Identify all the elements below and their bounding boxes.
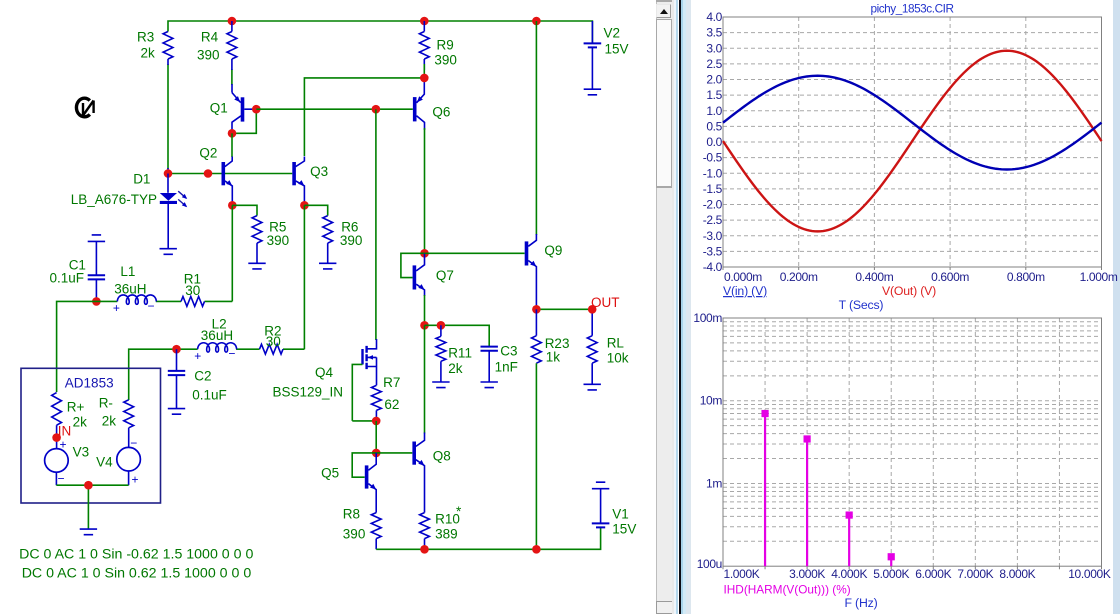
svg-text:2.5: 2.5 [706,57,722,71]
svg-text:R7: R7 [383,375,400,390]
battery V1 15V [592,482,609,489]
junction C1 [92,297,101,306]
resistor R7 62 [372,385,382,410]
wire -15V rail (bottom) [376,528,600,550]
junction D1 node [164,169,173,178]
transistor Q7 [413,265,417,289]
resistor R10 389 [420,513,430,539]
wire rail to Q9 collector [535,21,537,235]
source V3 [45,449,69,473]
svg-text:V4: V4 [96,455,113,470]
wire Q5 base loop [352,453,376,477]
svg-text:R11: R11 [448,346,472,361]
svg-text:R4: R4 [201,30,219,45]
svg-text:10.000K: 10.000K [1068,567,1111,581]
svg-text:8.000K: 8.000K [999,567,1035,581]
svg-text:30: 30 [266,334,281,349]
svg-text:V(in) (V): V(in) (V) [723,284,767,298]
svg-text:V2: V2 [604,26,621,41]
junction ground node [84,481,93,490]
svg-text:Q8: Q8 [433,449,451,464]
svg-text:4.0: 4.0 [706,10,722,24]
svg-text:1.0: 1.0 [706,104,722,118]
svg-text:L1: L1 [120,264,135,279]
capacitor C2 0.1uF [176,349,178,371]
svg-text:2k: 2k [141,46,156,61]
svg-text:T (Secs): T (Secs) [839,298,884,312]
svg-text:-0.5: -0.5 [703,151,723,165]
resistor R6 390 [323,216,333,244]
svg-text:3.000K: 3.000K [789,567,825,581]
source V4 [117,447,141,471]
junction Q3 emitter [300,201,309,210]
svg-text:0.1uF: 0.1uF [50,271,85,286]
wire base node to Q8 [376,452,412,454]
transistor Q2 [222,162,226,185]
junction rail-R9 [420,17,429,26]
svg-text:2.0: 2.0 [706,73,722,87]
svg-text:V(Out) (V): V(Out) (V) [882,284,936,298]
transistor Q6 [413,97,417,121]
ground below R5 [248,263,265,269]
resistor R8 390 [371,513,381,539]
svg-text:-3.5: -3.5 [703,244,723,258]
svg-text:0.000m: 0.000m [724,270,762,284]
svg-text:0.0: 0.0 [706,135,722,149]
svg-text:−: − [58,472,65,486]
junction VAS node [372,105,381,114]
wire R9 to Q6 [423,64,425,78]
svg-text:R3: R3 [137,30,154,45]
wire R+ to V3 [56,425,58,449]
svg-text:IHD(HARM(V(Out))) (%): IHD(HARM(V(Out))) (%) [724,583,851,597]
junction base wire [204,169,213,178]
svg-text:389: 389 [435,527,458,542]
wire R4 to Q1 [231,69,233,85]
svg-text:V3: V3 [73,445,90,460]
grid bottom plot [723,318,1102,566]
svg-text:C3: C3 [500,344,517,359]
ground below C2 [168,409,185,415]
svg-text:R-: R- [99,396,113,411]
resistor RL 10k [587,336,597,364]
svg-text:100m: 100m [693,311,722,325]
svg-text:62: 62 [384,397,399,412]
ticks top plot [723,267,1102,270]
inductor L2 36uH [198,343,237,352]
ground below V2 [584,89,601,95]
svg-text:36uH: 36uH [114,282,146,297]
svg-text:-1.0: -1.0 [703,166,723,180]
resistor R9 390 [423,21,425,32]
resistor R1 30 [181,297,205,307]
resistor R+ 2k [52,393,62,426]
wire R11 row [425,325,490,346]
svg-text:2k: 2k [448,361,463,376]
capacitor C1 0.1uF [95,241,97,275]
svg-text:Q2: Q2 [199,146,217,161]
diode D1 LED [167,174,169,193]
wire R7 to base node [375,421,377,453]
svg-text:D1: D1 [133,172,150,187]
resistor R23 1k [532,336,542,364]
wire VAS node down to Q4 drain [375,109,377,340]
transistor Q8 [412,442,416,465]
plot pane right edge strip [1113,0,1120,614]
wire L2 row [129,349,305,400]
scrollbar up arrow [660,9,668,14]
svg-text:6.000K: 6.000K [915,567,951,581]
junction R11 top [437,321,446,330]
svg-text:30: 30 [185,283,200,298]
transistor Q1 [241,97,245,121]
resistor R3 2k [163,32,173,60]
wire Q3 collector up to R9 [304,78,424,156]
svg-text:15V: 15V [605,42,629,57]
svg-text:3.0: 3.0 [706,41,722,55]
junction Q9e-R23 [532,305,541,314]
svg-text:0.5: 0.5 [706,119,722,133]
svg-text:2k: 2k [73,415,88,430]
box AD1853 [21,368,161,503]
svg-text:0.400m: 0.400m [855,270,893,284]
mosfet Q4 BSS129_IN [367,339,376,349]
wire OUT [536,308,592,310]
svg-text:RL: RL [607,336,625,351]
junction rail-R23 [532,545,541,554]
svg-text:R9: R9 [437,38,454,53]
svg-text:−: − [228,347,235,361]
ground below C3 [481,382,498,388]
transistor Q3 [292,162,296,185]
window border black line [679,0,681,614]
svg-text:F (Hz): F (Hz) [845,596,878,610]
svg-text:7.000K: 7.000K [957,567,993,581]
node +15V rail (top) [168,21,592,43]
wire Q7 base loop [401,253,425,277]
svg-text:BSS129_IN: BSS129_IN [273,385,344,400]
wire Q6c down [424,128,426,253]
svg-text:2k: 2k [102,414,117,429]
capacitor C3 1nF [481,347,498,351]
svg-text:−: − [148,299,155,313]
wire IN row [57,301,233,392]
scrollbar up button [656,4,671,19]
svg-text:-2.0: -2.0 [703,198,723,212]
svg-text:AD1853: AD1853 [65,376,114,391]
junction Q7 node [420,249,429,258]
svg-text:Q5: Q5 [321,466,339,481]
window border strip [672,0,674,614]
grid top plot [723,17,1102,267]
scrollbar track [656,0,673,614]
wire Q2e to R5 [232,205,257,215]
svg-text:0.800m: 0.800m [1007,270,1045,284]
svg-text:+: + [113,301,120,315]
svg-text:-2.5: -2.5 [703,213,723,227]
svg-text:pichy_1853c.CIR: pichy_1853c.CIR [870,2,953,16]
resistor R4 390 [231,21,233,32]
svg-text:LB_A676-TYP: LB_A676-TYP [71,192,157,207]
svg-text:0.600m: 0.600m [931,270,969,284]
wire Q2e down to R1 [231,205,233,301]
inductor L1 36uH [117,295,156,304]
svg-text:+: + [194,349,201,363]
junction Q8 base node [372,449,381,458]
frame top plot [723,17,1102,267]
wire base rail Q2-Q3 [168,173,292,175]
svg-text:1m: 1m [706,476,722,490]
svg-text:0.200m: 0.200m [780,270,818,284]
svg-text:390: 390 [197,48,220,63]
ground below R6 [319,263,336,269]
svg-text:-3.0: -3.0 [703,229,723,243]
svg-text:1nF: 1nF [495,360,518,375]
svg-text:5.000K: 5.000K [873,567,909,581]
svg-text:Q4: Q4 [315,365,334,380]
svg-text:+: + [132,473,139,487]
svg-text:C2: C2 [194,369,211,384]
resistor R2 30 [260,344,284,354]
scrollbar top separator [656,0,672,2]
scrollbar thumb [656,19,672,188]
svg-text:390: 390 [267,233,290,248]
harmonic stems IHD [764,414,766,567]
svg-text:R8: R8 [343,507,360,522]
junction rail-Q9 [532,17,541,26]
transistor Q9 [525,241,529,265]
svg-text:10m: 10m [700,394,723,408]
wire Q7e node down to Q8 [424,325,426,433]
curve V(Out) red [723,51,1102,232]
svg-text:Q6: Q6 [432,105,450,120]
scrollbar down button [656,601,675,614]
wire Q3e to R6 [304,205,327,215]
svg-text:10k: 10k [607,351,629,366]
resistor R11 2k [440,325,442,336]
ground below R11 [432,382,449,388]
svg-text:15V: 15V [612,522,636,537]
svg-text:1.000m: 1.000m [1080,270,1118,284]
wire Q3e down to R2 [303,205,305,349]
battery V2 15V [591,21,593,43]
logo CN glyph [76,98,89,117]
wire Q7node to Q9 base [425,252,525,254]
wire sources to ground [56,471,128,485]
ticks bottom plot [723,566,1102,569]
junction R7 bottom [372,417,381,426]
svg-text:DC 0 AC 1 0 Sin 0.62 1.5 1000: DC 0 AC 1 0 Sin 0.62 1.5 1000 0 0 0 [22,566,252,582]
svg-text:+: + [60,438,67,452]
svg-text:Q1: Q1 [210,101,228,116]
wire R3 to D1 node [167,64,169,169]
wire Q1 base-collector tie [232,109,256,133]
junction Q1 base [252,105,261,114]
svg-text:Q7: Q7 [436,268,454,283]
junction rail-R10 [420,545,429,554]
svg-text:1.000K: 1.000K [724,567,760,581]
junction rail-R4 [228,17,237,26]
junction Q2 emitter [228,201,237,210]
svg-text:1k: 1k [546,350,561,365]
svg-text:V1: V1 [612,507,629,522]
ground below AD1853 [80,529,97,535]
junction Q1 collector [228,129,237,138]
svg-text:DC 0 AC 1 0 Sin -0.62 1.5 1000: DC 0 AC 1 0 Sin -0.62 1.5 1000 0 0 0 [19,547,253,563]
ground below D1 [160,249,177,255]
svg-text:36uH: 36uH [201,328,233,343]
svg-text:-1.5: -1.5 [703,182,723,196]
wire R- to V4 [128,428,130,448]
ground above C1 [88,235,105,242]
svg-text:1.5: 1.5 [706,88,722,102]
resistor R5 390 [252,216,262,244]
svg-text:100u: 100u [697,557,722,571]
svg-text:3.5: 3.5 [706,26,722,40]
svg-text:Q9: Q9 [544,243,562,258]
wire Q7e down [424,295,426,325]
wire Q1c to Q2c [231,133,233,157]
transistor Q5 [365,465,369,488]
svg-text:R+: R+ [67,400,85,415]
svg-text:4.000K: 4.000K [831,567,867,581]
svg-text:*: * [456,504,462,519]
curve V(in) blue [723,76,1102,170]
svg-text:390: 390 [343,527,366,542]
svg-text:0.1uF: 0.1uF [192,388,227,403]
wire R23 to bottom rail [535,363,537,549]
frame bottom plot [723,318,1102,566]
junction Q7e node [420,321,429,330]
svg-text:−: − [130,436,137,450]
svg-text:390: 390 [340,233,363,248]
svg-text:390: 390 [434,53,457,68]
svg-text:Q3: Q3 [310,164,328,179]
wire Q1 base to Q6 base [256,108,413,110]
svg-text:-4.0: -4.0 [703,260,723,274]
junction C2 [172,345,181,354]
wire Q9e down to R23 [535,309,537,335]
ground below RL [584,384,601,390]
junction R9-Q6 [420,74,429,83]
resistor R- 2k [124,400,134,428]
